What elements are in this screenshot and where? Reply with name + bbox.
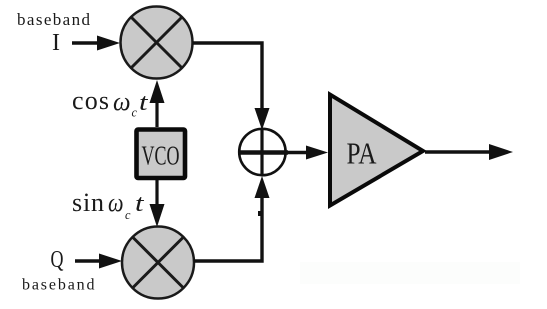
oscillator VCO xyxy=(137,130,186,179)
svg-text:PA: PA xyxy=(347,136,377,171)
svg-text:ω: ω xyxy=(113,87,131,116)
mixer M1 (I mixer) xyxy=(121,7,193,79)
wire VCO to M1 (cos carrier) xyxy=(150,80,165,127)
wire summer S1 to PA xyxy=(286,146,328,160)
label cos wc t xyxy=(72,86,149,120)
wire M2 output to summer S1 xyxy=(194,176,270,261)
wire Q input with arrow xyxy=(75,254,122,269)
svg-text:cos: cos xyxy=(72,86,109,115)
svg-text:baseband: baseband xyxy=(17,10,91,29)
label sin wc t xyxy=(72,188,145,222)
faint watermark xyxy=(300,262,520,284)
svg-text:ω: ω xyxy=(108,188,124,217)
svg-text:I: I xyxy=(52,30,60,56)
amplifier PA xyxy=(330,95,423,206)
svg-text:c: c xyxy=(132,105,138,120)
svg-text:VCO: VCO xyxy=(142,141,180,171)
wire VCO to M2 (sin carrier) xyxy=(150,180,165,227)
wire PA output with arrow xyxy=(425,144,513,160)
wire M1 output to summer S1 xyxy=(193,43,270,130)
svg-text:baseband: baseband xyxy=(22,277,96,294)
summer S1 xyxy=(238,129,288,176)
mixer M2 (Q mixer) xyxy=(122,227,194,299)
svg-text:Q: Q xyxy=(51,247,64,273)
svg-text:c: c xyxy=(125,207,131,222)
svg-text:sin: sin xyxy=(72,188,104,217)
wire I input with arrow xyxy=(72,36,120,51)
